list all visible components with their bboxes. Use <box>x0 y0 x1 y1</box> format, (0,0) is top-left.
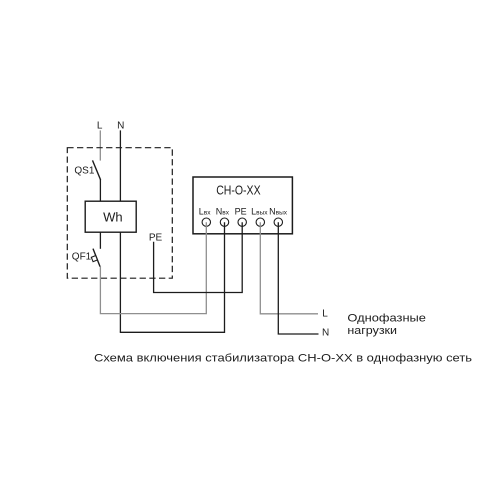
svg-text:нагрузки: нагрузки <box>347 325 397 337</box>
wire L input drop (gray) <box>99 130 101 160</box>
terminal Lin circle <box>202 218 210 226</box>
circuit breaker QF1 blade <box>93 249 100 267</box>
wire Nout drop and across to load N <box>278 222 318 334</box>
svg-text:N: N <box>322 328 329 339</box>
circuit breaker QF1 contact square <box>91 256 97 262</box>
svg-text:СН-О-ХХ: СН-О-ХХ <box>216 184 261 198</box>
svg-text:L: L <box>322 309 328 320</box>
wire N horizontal and up to Nin terminal <box>120 222 225 332</box>
wire L from QF1 down and across to Lin terminal (gray) <box>100 222 206 313</box>
svg-text:QS1: QS1 <box>74 165 94 176</box>
svg-text:N: N <box>117 120 124 131</box>
terminal Nin circle <box>220 218 228 226</box>
wire N input drop through meter to bottom <box>119 130 121 332</box>
svg-text:Wh: Wh <box>103 209 123 224</box>
wire Lout drop and across to load L (gray) <box>260 222 318 314</box>
svg-text:Схема включения стабилизатора: Схема включения стабилизатора СН-О-ХХ в … <box>94 352 472 364</box>
wire QS1 to Wh meter (L) <box>99 179 101 202</box>
disconnect switch QS1 blade <box>93 160 101 180</box>
wire PE from label down, across, and up to PE terminal <box>154 222 243 292</box>
terminal PE circle <box>238 218 246 226</box>
svg-text:PE: PE <box>149 233 163 244</box>
wire Wh to QF1 (L) <box>99 232 101 249</box>
dashed enclosure (input board) <box>67 148 172 279</box>
svg-text:L: L <box>97 120 103 131</box>
terminal Lout circle <box>256 218 264 226</box>
energy meter Wh box <box>85 201 136 232</box>
stabilizer box U1 CH-O-XX <box>193 177 292 234</box>
svg-text:QF1: QF1 <box>72 252 92 263</box>
svg-text:Однофазные: Однофазные <box>347 312 426 324</box>
svg-text:PE: PE <box>235 206 247 216</box>
terminal Nout circle <box>274 218 282 226</box>
